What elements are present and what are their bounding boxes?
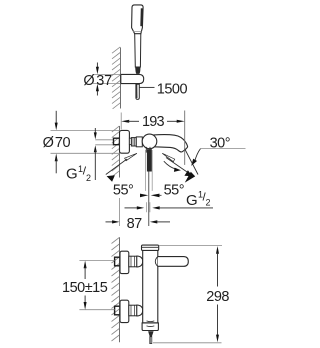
bottom outlet nipple [146,147,150,153]
svg-text:Ø37: Ø37 [83,73,112,89]
hose left edge shade [136,84,138,98]
body inner smile top [147,320,155,323]
wall line (bottom view) [119,237,121,342]
handle centerline extension [148,172,150,227]
dimension 87 right arrow [150,220,170,223]
hand shower head [132,5,144,34]
30 deg leader arc + arrowhead [195,149,201,162]
wall hatch (bottom view) [112,238,120,342]
body top cap [142,245,159,250]
svg-text:1: 1 [78,164,83,174]
30 deg leader underline [201,148,246,150]
hose outlet cone [148,331,154,337]
handle attach arc [155,257,158,267]
bottom cap smile [147,325,155,328]
55 deg right arrowhead [184,170,192,176]
dimension Ø70 arrow top [55,111,58,131]
30 deg rotation direction arrowhead [185,172,195,183]
wall line (middle view) [119,126,121,178]
bottom cap [142,323,158,331]
handle silhouette lines [144,150,146,191]
hand shower handle [135,34,141,67]
wall line (top view) [120,48,122,109]
dimension Ø70 extension top [51,130,120,132]
svg-text:1: 1 [198,190,203,200]
svg-text:150±15: 150±15 [62,280,108,296]
connector stub [129,138,131,144]
mixer body (vertical) [143,250,158,323]
G1/2 left dimension arrows [94,128,97,180]
dimension Ø37 extension line top [93,73,121,75]
dimension 298 extension bottom [153,342,222,344]
dimension Ø37 arrow top [96,63,99,75]
escutcheon (side view) [120,130,130,153]
wall hatch (top view) [112,47,120,109]
dimension 193 right extension / 30 deg vertical reference [184,111,186,165]
spout [152,135,188,152]
55 deg left tilted handle needle (open) [125,153,137,160]
shower bracket bar [121,74,144,83]
wall hatch (middle view) [112,126,120,177]
dimension 193 line right segment + arrow [167,120,185,123]
shower hose upper section [136,84,139,99]
svg-text:G: G [66,165,78,182]
handle end cone (dark) [135,67,140,74]
lower ball joint [137,305,143,316]
dimension Ø70 extension bottom [51,152,120,154]
shower head separation line [133,30,141,32]
dimension Ø70 arrow bottom [55,154,58,174]
svg-text:298: 298 [206,289,229,305]
leader line for 1500 [139,86,154,88]
union nut at body [131,138,136,146]
upper concealed nut [115,257,121,266]
30 deg slant line [185,149,198,175]
svg-text:193: 193 [142,114,165,130]
dimension 193 left extension [120,113,122,130]
dimension 298 extension top [159,245,222,247]
55 deg left line [106,159,127,175]
svg-text:2: 2 [206,198,211,208]
concealed union nut (dark) [114,138,120,145]
dimension Ø37 arrow bottom [96,84,99,96]
converging arrows at handle tip [140,194,148,198]
upper escutcheon [120,251,129,273]
55 deg left arrowhead [107,175,115,182]
lower escutcheon [120,300,129,322]
dimension Ø37 extension line bottom [93,83,121,85]
svg-text:G: G [186,192,198,209]
G1/2 right leader line + arrows [125,202,214,212]
knob (handle ball) [142,134,157,149]
label G 1/2 left [66,164,91,183]
shower head spray-face shading [140,8,143,26]
svg-text:2: 2 [86,173,91,183]
svg-text:87: 87 [127,216,143,232]
upper ball joint [137,256,143,267]
svg-text:55°: 55° [164,183,184,199]
hose stub [150,337,152,344]
dimension 87 left arrow [106,220,120,223]
lower union nut [129,305,137,316]
dimension 150±15 extension top [79,260,114,262]
svg-text:Ø70: Ø70 [43,135,71,151]
label G 1/2 right [186,190,211,209]
svg-text:1500: 1500 [157,81,188,97]
body front section [136,137,142,147]
dimension 150±15 extension bottom [79,309,114,311]
svg-text:55°: 55° [113,183,133,199]
lever handle (bottom view) [158,257,189,267]
dimension 150±15 line + arrows [84,261,87,310]
lower concealed nut [115,306,121,315]
inlet pipe lines behind wall [95,139,113,141]
upper union nut [129,256,137,267]
55 deg right line [166,158,190,175]
dimension 193 line left segment + arrow [121,120,139,123]
55 deg right tilted handle needle (open) [162,153,174,161]
dimension 298 line + arrows [216,246,219,342]
svg-text:30°: 30° [210,136,230,152]
dimension 87 wall extension [119,198,121,226]
right swing arc + arrowhead [164,161,177,169]
handle lever (dark) [147,149,152,171]
